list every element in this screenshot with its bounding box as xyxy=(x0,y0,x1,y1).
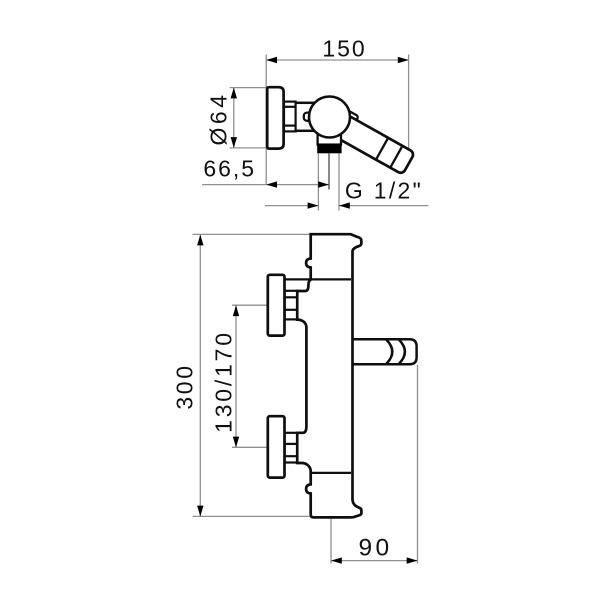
svg-text:130/170: 130/170 xyxy=(211,330,237,433)
130/170 bottom arrow xyxy=(233,437,239,448)
G 1/2 left arrow (points right) xyxy=(308,202,319,208)
90 left arrow xyxy=(331,557,342,563)
svg-text:Ø64: Ø64 xyxy=(206,92,232,146)
right extension line of 150 dim xyxy=(408,55,410,158)
300 bottom arrow xyxy=(197,506,203,517)
svg-text:90: 90 xyxy=(358,535,392,562)
Ø64 top arrow xyxy=(231,88,237,99)
66,5 left arrow xyxy=(266,181,277,187)
handle ridge arc 1 xyxy=(386,340,392,364)
G 1/2 thread black band xyxy=(317,144,341,154)
wall flange (top) xyxy=(267,87,283,148)
right extension line of 90 xyxy=(417,365,419,564)
handle division line 2 xyxy=(390,146,402,168)
svg-text:G 1/2": G 1/2" xyxy=(345,178,423,204)
top cap joint line xyxy=(284,278,351,280)
G 1/2 right arrow (points left) xyxy=(339,202,350,208)
top extension line of 300 xyxy=(193,233,311,235)
outlet centre line xyxy=(328,154,330,190)
300 dimension line xyxy=(199,235,201,517)
handle ridge arc 2 xyxy=(399,340,405,364)
90 dimension line xyxy=(331,560,418,562)
wall flange (upper) xyxy=(268,275,285,336)
130/170 top arrow xyxy=(233,305,239,316)
right extension line of G 1/2 xyxy=(338,154,340,211)
lower flange connector nut xyxy=(285,433,297,463)
handle body xyxy=(335,115,415,175)
bottom extension line of 300 xyxy=(193,515,310,517)
bottom cap joint line xyxy=(311,472,351,474)
150 right arrow xyxy=(398,57,409,63)
svg-text:66,5: 66,5 xyxy=(203,156,256,182)
left extension line of 90 xyxy=(330,518,332,563)
outlet neck under ball xyxy=(318,132,341,145)
upper extension line of Ø64 xyxy=(230,87,268,89)
Ø64 dimension line xyxy=(233,88,235,148)
G 1/2 dimension line left segment xyxy=(265,205,318,207)
Ø64 bottom arrow xyxy=(231,137,237,148)
flange connector nut (top assembly) xyxy=(284,102,296,132)
66,5 dimension line xyxy=(202,184,329,186)
small ring bump left of ball xyxy=(304,113,313,121)
150 left arrow xyxy=(266,57,277,63)
lower extension line of Ø64 xyxy=(230,147,268,149)
wall flange (lower) xyxy=(268,416,285,477)
svg-text:150: 150 xyxy=(322,36,366,62)
wall-plane extension line (left of 150 dim) xyxy=(265,55,267,185)
130/170 dimension line xyxy=(235,305,237,447)
G 1/2 dimension line right segment xyxy=(339,205,428,207)
svg-text:300: 300 xyxy=(172,363,198,409)
left extension line of G 1/2 xyxy=(317,154,319,211)
lower flange centre line xyxy=(232,446,268,448)
handle division line 1 xyxy=(376,138,388,160)
90 right arrow xyxy=(407,557,418,563)
handle collar tab xyxy=(342,110,359,127)
upper flange centre line xyxy=(232,304,268,306)
66,5 right arrow xyxy=(318,181,329,187)
upper flange connector nut xyxy=(285,291,297,320)
holder ball xyxy=(309,97,350,138)
300 top arrow xyxy=(197,235,203,246)
mixer body outline xyxy=(297,234,361,517)
shower handle (rotated group) xyxy=(333,110,416,174)
holder arm xyxy=(294,103,316,131)
temperature handle (right side) xyxy=(352,339,417,364)
150 dimension line xyxy=(266,59,408,61)
